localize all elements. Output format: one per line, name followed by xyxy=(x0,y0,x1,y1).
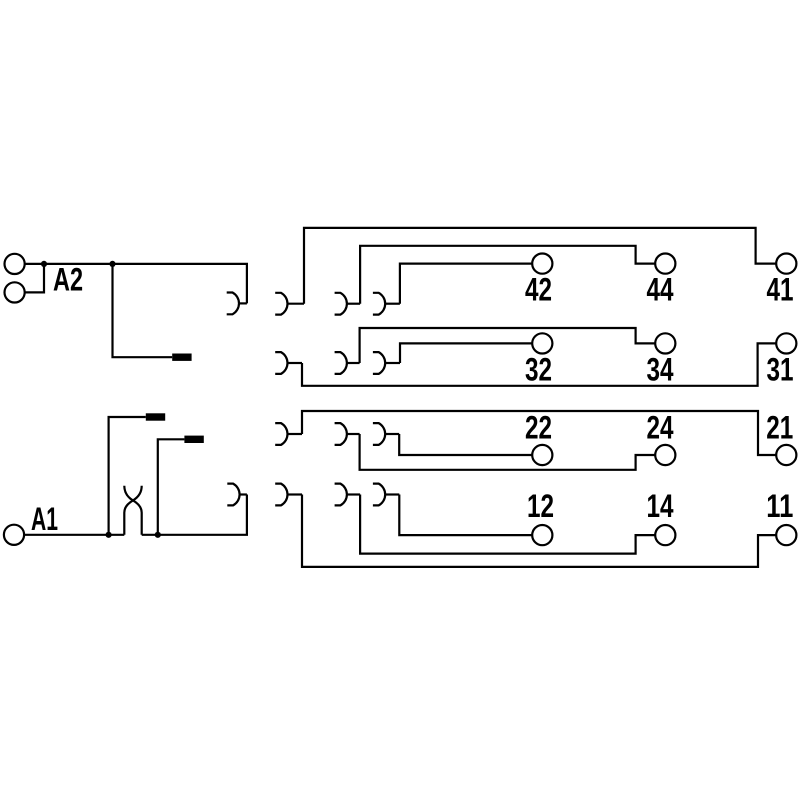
terminal 34 circle xyxy=(655,333,675,353)
coil K1 (relay 1) xyxy=(172,354,191,361)
plug contact common group 4x xyxy=(275,293,304,315)
wire junction down to coil K1 xyxy=(113,264,173,357)
junction on A2 line at x=112.5 xyxy=(109,261,115,267)
terminal 14 circle xyxy=(655,525,675,545)
plug contact NO group 2x xyxy=(373,423,399,445)
junction on A2 line at x=44 xyxy=(41,261,47,267)
svg-text:11: 11 xyxy=(766,488,793,524)
terminal 32 circle xyxy=(532,333,552,353)
wire NO to terminal 12 xyxy=(399,495,532,536)
svg-text:12: 12 xyxy=(527,488,554,524)
wire common to terminal 41 xyxy=(304,228,776,304)
plug contact common group 3x xyxy=(275,352,302,374)
terminal 11 circle xyxy=(776,525,796,545)
plug contact common group 2x xyxy=(275,423,302,445)
svg-text:32: 32 xyxy=(525,351,552,387)
wire NC to terminal 24 xyxy=(360,434,656,470)
wire NO to terminal 22 xyxy=(399,434,532,455)
wire NC to terminal 34 xyxy=(360,328,656,363)
wire junction up to coil K2 xyxy=(109,417,146,535)
wire NC to terminal 14 xyxy=(360,495,655,554)
coil K3 (relay 2 second coil) xyxy=(184,436,203,443)
plug contact NO group 3x xyxy=(373,352,400,374)
terminal 42 circle xyxy=(532,254,552,274)
terminal 41 circle xyxy=(776,254,796,274)
indicator crossed-wires symbol left branch xyxy=(124,486,141,535)
terminal A2 upper circle xyxy=(5,254,25,274)
terminal 31 circle xyxy=(776,333,796,353)
plug contact NO group 1x xyxy=(373,484,399,506)
svg-text:A2: A2 xyxy=(53,261,83,297)
svg-text:24: 24 xyxy=(647,409,674,445)
wire NO to terminal 42 xyxy=(400,264,532,304)
terminal A2 lower circle xyxy=(5,282,25,302)
svg-text:A1: A1 xyxy=(31,501,58,537)
plug contact NC group 2x xyxy=(335,423,360,445)
junction on A1 line at x=108.6 xyxy=(106,532,112,538)
svg-text:44: 44 xyxy=(647,272,674,308)
wire A1 line to plug, right then up xyxy=(142,495,247,535)
wire A2 terminal to node xyxy=(25,263,44,265)
svg-text:42: 42 xyxy=(525,272,552,308)
junction on A1 line at x=157.8 xyxy=(155,532,161,538)
terminal 12 circle xyxy=(532,525,552,545)
wire NO to terminal 32 xyxy=(400,343,532,363)
wire A1 terminal to indicator xyxy=(24,534,124,536)
wire NC to terminal 44 xyxy=(360,246,655,304)
wire common to terminal 11 xyxy=(302,495,776,567)
svg-text:22: 22 xyxy=(525,409,552,445)
svg-text:31: 31 xyxy=(767,351,794,387)
svg-text:34: 34 xyxy=(647,351,674,387)
plug contact coil A2 xyxy=(227,293,247,315)
terminal A1 circle xyxy=(4,525,24,545)
terminal 22 circle xyxy=(532,445,552,465)
terminal 44 circle xyxy=(655,254,675,274)
svg-text:21: 21 xyxy=(766,409,793,445)
wire common to terminal 21 xyxy=(302,411,776,455)
plug contact coil A1 xyxy=(227,484,247,506)
wire common to terminal 31 xyxy=(302,343,776,385)
wire junction up to coil K3 xyxy=(158,439,185,535)
coil K2 (relay 2) xyxy=(146,413,165,420)
plug contact common group 1x xyxy=(275,484,302,506)
plug contact NO group 4x xyxy=(373,293,400,315)
plug contact NC group 3x xyxy=(335,352,360,374)
wire junction down to lower A2 terminal xyxy=(25,264,44,293)
wire A2 line to plug, right then down xyxy=(44,264,247,304)
plug contact NC group 1x xyxy=(335,484,361,506)
svg-text:14: 14 xyxy=(647,488,674,524)
terminal 24 circle xyxy=(655,445,675,465)
svg-text:41: 41 xyxy=(767,272,794,308)
indicator crossed-wires symbol right branch xyxy=(124,486,141,535)
terminal 21 circle xyxy=(776,445,796,465)
plug contact NC group 4x xyxy=(335,293,361,315)
